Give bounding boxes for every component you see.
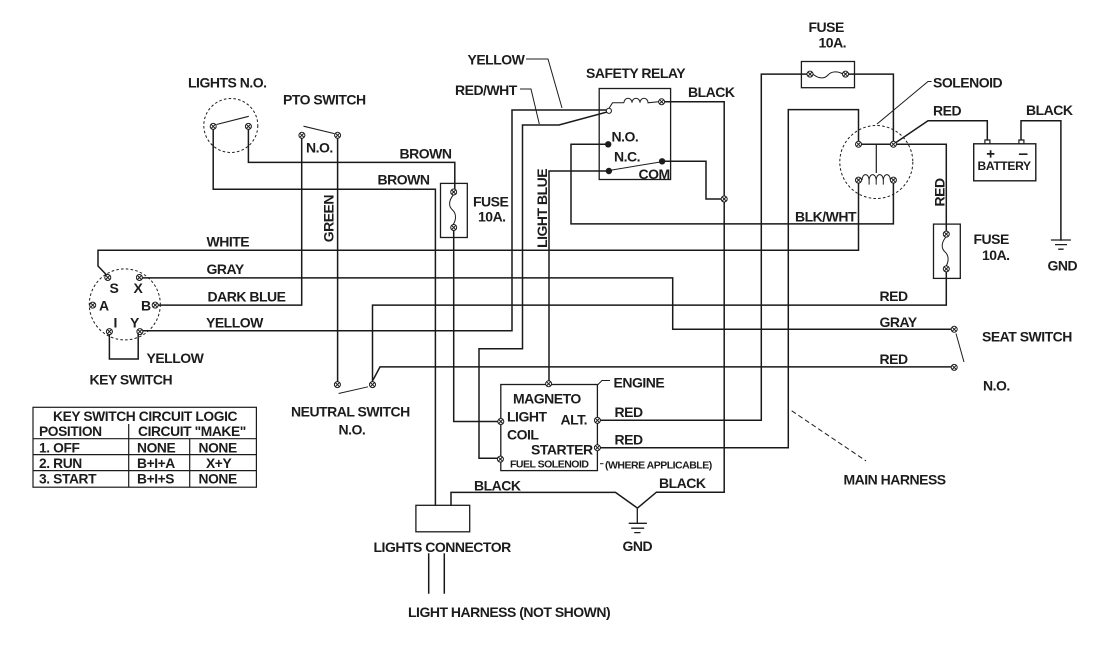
svg-text:(WHERE APPLICABLE): (WHERE APPLICABLE)	[605, 460, 712, 472]
svg-text:GRAY: GRAY	[207, 261, 245, 277]
svg-text:GND: GND	[1048, 258, 1078, 274]
wire fuse F1 to magneto LIGHT terminal	[454, 231, 498, 422]
lights switch terminals	[210, 123, 251, 129]
wire BLACK (relay coil to ground junction, down to engine GND)	[638, 102, 724, 508]
svg-text:MAIN HARNESS: MAIN HARNESS	[844, 472, 946, 488]
svg-text:LIGHT BLUE: LIGHT BLUE	[534, 169, 550, 248]
safety relay coil right terminal	[659, 99, 665, 105]
svg-text:BLACK: BLACK	[1026, 102, 1073, 118]
svg-text:RED: RED	[933, 103, 961, 119]
svg-text:RED/WHT: RED/WHT	[455, 82, 518, 98]
wire BLACK (battery - to GND)	[1021, 121, 1061, 240]
svg-text:DARK BLUE: DARK BLUE	[208, 289, 286, 305]
svg-text:10A.: 10A.	[819, 35, 847, 51]
ground GND1 (battery)	[1051, 240, 1071, 249]
key switch terminals	[90, 275, 159, 335]
ground GND2 (engine)	[629, 508, 647, 533]
svg-text:X: X	[134, 280, 144, 296]
solenoid terminals	[856, 141, 897, 183]
svg-text:BLACK: BLACK	[688, 84, 735, 100]
neutral switch arm	[339, 387, 368, 394]
magneto terminals	[497, 381, 600, 462]
safety relay coil	[609, 98, 659, 108]
svg-text:2. RUN: 2. RUN	[39, 456, 82, 471]
svg-text:YELLOW: YELLOW	[468, 52, 526, 68]
svg-text:KEY SWITCH CIRCUIT LOGIC: KEY SWITCH CIRCUIT LOGIC	[53, 409, 238, 424]
fuse F3 terminals	[943, 231, 949, 272]
svg-text:RED: RED	[880, 288, 908, 304]
svg-text:I: I	[114, 315, 117, 331]
wire WHITE (key switch S to solenoid bottom-left)	[98, 182, 859, 277]
wire GRAY (key switch X to seat switch)	[141, 278, 952, 329]
svg-text:ALT.: ALT.	[561, 412, 588, 428]
safety relay switch arm	[611, 162, 661, 170]
fuse F2 terminals	[807, 71, 849, 77]
key switch logic table	[33, 407, 256, 487]
svg-text:YELLOW: YELLOW	[206, 315, 264, 331]
svg-text:N.C.: N.C.	[614, 148, 640, 164]
callout SOLENOID	[877, 82, 932, 125]
svg-text:MAGNETO: MAGNETO	[513, 391, 581, 407]
fuse F1 terminals	[451, 189, 457, 231]
svg-text:BLACK: BLACK	[474, 478, 521, 494]
svg-text:NONE: NONE	[199, 471, 237, 486]
svg-text:GREEN: GREEN	[321, 195, 337, 243]
fuse F3	[934, 224, 961, 278]
svg-text:NEUTRAL SWITCH: NEUTRAL SWITCH	[291, 404, 410, 420]
safety relay N.O. terminal	[605, 141, 611, 147]
battery - symbol	[1019, 153, 1028, 155]
wire lights connector stubs to light harness	[429, 554, 445, 593]
solenoid coil	[862, 175, 890, 185]
svg-text:B+I+S: B+I+S	[137, 471, 174, 486]
lights connector box	[416, 505, 470, 532]
battery	[974, 140, 1036, 181]
svg-text:3. START: 3. START	[39, 471, 97, 486]
fuse F1	[441, 183, 468, 237]
svg-text:FUSE: FUSE	[809, 19, 845, 35]
svg-text:B: B	[141, 298, 151, 314]
key switch pin letters	[99, 280, 151, 331]
junction (BLACK/COM)	[721, 196, 727, 202]
svg-text:BLACK: BLACK	[659, 475, 706, 491]
svg-text:BROWN: BROWN	[378, 172, 430, 188]
safety relay COM terminal	[659, 158, 665, 164]
svg-text:COIL: COIL	[507, 427, 539, 443]
callout RED/WHT	[520, 89, 539, 124]
solenoid top bar and plunger	[862, 144, 891, 173]
wire solenoid top bar to fuse F3	[862, 144, 947, 231]
svg-text:BROWN: BROWN	[400, 146, 452, 162]
svg-text:LIGHT HARNESS (NOT SHOWN): LIGHT HARNESS (NOT SHOWN)	[408, 604, 610, 620]
PTO switch terminals	[299, 132, 341, 138]
svg-text:RED: RED	[615, 404, 643, 420]
svg-text:POSITION: POSITION	[39, 424, 102, 439]
callout YELLOW	[526, 59, 562, 108]
svg-text:SOLENOID: SOLENOID	[933, 75, 1003, 91]
svg-text:Y: Y	[130, 315, 140, 331]
svg-text:COM: COM	[639, 166, 670, 182]
wire RED (solenoid to battery +)	[896, 121, 987, 143]
neutral switch terminals	[334, 382, 375, 388]
svg-text:PTO SWITCH: PTO SWITCH	[283, 92, 366, 108]
wire RED (fuse F3 to neutral switch right)	[373, 272, 947, 382]
svg-text:N.O.: N.O.	[983, 378, 1010, 394]
svg-text:BATTERY: BATTERY	[978, 159, 1032, 173]
wire YELLOW (key switch Y to safety relay coil)	[143, 110, 607, 331]
svg-text:RED: RED	[615, 432, 643, 448]
svg-text:SEAT SWITCH: SEAT SWITCH	[982, 329, 1072, 345]
wire relay COM to junction	[665, 161, 722, 199]
svg-text:RED: RED	[932, 178, 948, 206]
wire BLACK (lights connector to engine GND)	[451, 492, 637, 507]
svg-text:A: A	[99, 298, 109, 314]
wire GREEN (PTO switch right to neutral switch left)	[337, 138, 339, 381]
svg-text:1. OFF: 1. OFF	[39, 440, 80, 455]
wire LIGHT BLUE (relay N.C. to magneto top)	[549, 171, 606, 381]
magneto box	[501, 385, 598, 471]
svg-text:SAFETY RELAY: SAFETY RELAY	[586, 65, 686, 81]
wire RED (magneto ALT to fuse F2 left)	[601, 74, 808, 420]
svg-text:STARTER: STARTER	[531, 442, 593, 458]
wire BROWN upper (lights switch right to fuse F1)	[248, 130, 454, 190]
solenoid circle	[840, 126, 913, 199]
svg-text:NONE: NONE	[137, 440, 175, 455]
svg-text:LIGHT: LIGHT	[507, 409, 547, 425]
seat switch arm	[956, 334, 964, 363]
svg-text:GND: GND	[623, 538, 653, 554]
svg-text:X+Y: X+Y	[206, 456, 231, 471]
lights switch (LIGHTS N.O.)	[204, 99, 258, 153]
safety relay coil left terminal	[606, 108, 611, 113]
svg-text:10A.: 10A.	[478, 209, 506, 225]
callout ENGINE	[598, 381, 611, 386]
svg-text:NONE: NONE	[199, 440, 237, 455]
wire RED (magneto STARTER via main harness to solenoid top-left)	[601, 110, 859, 448]
PTO switch	[304, 126, 335, 133]
svg-text:KEY SWITCH: KEY SWITCH	[90, 372, 173, 388]
wire fuse F2 right to solenoid top-right	[849, 74, 894, 141]
svg-text:RED: RED	[880, 351, 908, 367]
wire jumper YELLOW under key switch	[109, 335, 138, 359]
svg-text:FUSE: FUSE	[974, 231, 1010, 247]
wire RED/WHT (relay coil to fuel solenoid)	[479, 112, 606, 458]
svg-text:ENGINE: ENGINE	[614, 375, 665, 391]
svg-text:N.O.: N.O.	[339, 422, 366, 438]
svg-text:N.O.: N.O.	[306, 140, 333, 156]
wire RED (neutral switch to seat switch)	[373, 367, 952, 380]
svg-text:CIRCUIT "MAKE": CIRCUIT "MAKE"	[138, 424, 246, 439]
safety relay N.C. terminal	[606, 168, 612, 174]
svg-text:BLK/WHT: BLK/WHT	[795, 209, 857, 225]
label (WHERE APPLICABLE)	[600, 463, 604, 465]
wire DARK BLUE (key switch B to PTO switch left)	[158, 138, 302, 305]
svg-text:FUSE: FUSE	[473, 194, 509, 210]
wire BLK/WHT (relay N.O. to solenoid bottom-right)	[571, 144, 893, 224]
svg-text:LIGHTS CONNECTOR: LIGHTS CONNECTOR	[374, 539, 512, 555]
callout MAIN HARNESS (dashed)	[792, 411, 866, 461]
wire BROWN lower (lights switch left to lights connector)	[213, 130, 435, 506]
svg-text:B+I+A: B+I+A	[137, 456, 175, 471]
svg-text:YELLOW: YELLOW	[147, 350, 205, 366]
key switch circle	[89, 269, 160, 340]
seat switch terminals	[951, 326, 957, 370]
svg-text:WHITE: WHITE	[207, 234, 250, 250]
svg-text:N.O.: N.O.	[612, 129, 639, 145]
safety relay box	[599, 89, 670, 180]
fuse F2	[801, 62, 854, 88]
svg-text:S: S	[110, 280, 119, 296]
svg-text:GRAY: GRAY	[880, 314, 918, 330]
battery + symbol	[987, 150, 995, 157]
svg-text:LIGHTS N.O.: LIGHTS N.O.	[188, 75, 267, 91]
svg-text:10A.: 10A.	[982, 247, 1010, 263]
svg-text:FUEL SOLENOID: FUEL SOLENOID	[510, 459, 589, 471]
